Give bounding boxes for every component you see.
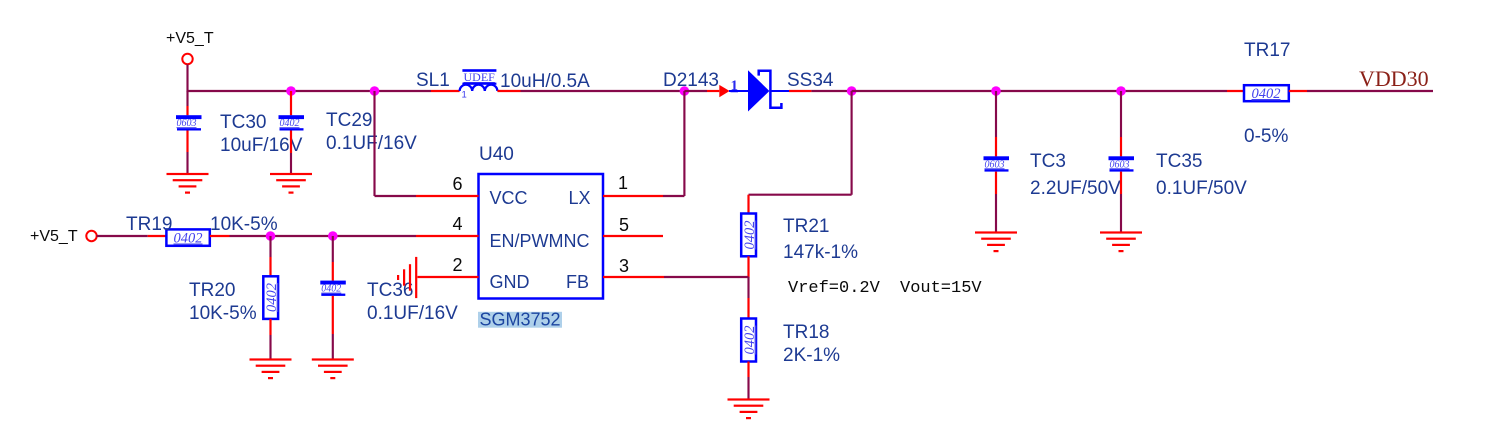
svg-text:147k-1%: 147k-1% xyxy=(783,242,858,263)
node junction dot (TR20 tap) xyxy=(266,231,276,241)
node junction dot (diode cathode) xyxy=(847,86,857,96)
pin 3 wire (FB) xyxy=(603,276,664,278)
svg-text:0402: 0402 xyxy=(174,231,203,247)
svg-text:+V5_T: +V5_T xyxy=(166,30,214,47)
ground (pin 2, sideways) xyxy=(397,257,417,298)
pin 1 wire (LX) xyxy=(603,195,663,197)
inductor SL1 xyxy=(431,69,521,100)
svg-text:TC35: TC35 xyxy=(1156,151,1202,172)
svg-text:GND: GND xyxy=(490,272,530,292)
wire output rail xyxy=(852,90,1227,92)
svg-text:U40: U40 xyxy=(479,144,514,165)
svg-text:3: 3 xyxy=(619,256,629,276)
pin 5 wire (NC) xyxy=(603,235,663,237)
svg-text:SL1: SL1 xyxy=(416,70,450,91)
svg-text:TC3: TC3 xyxy=(1030,151,1066,172)
svg-text:1: 1 xyxy=(618,173,628,193)
wire FB node xyxy=(664,276,749,278)
capacitor TC29 xyxy=(279,91,305,174)
power port +V5_T (left) xyxy=(30,228,97,245)
ground (TC36) xyxy=(312,358,354,379)
ground (TC35) xyxy=(1100,231,1142,252)
wire rail after inductor to diode junction xyxy=(521,90,685,92)
ground (TC29) xyxy=(270,173,312,194)
svg-text:0402: 0402 xyxy=(264,283,280,312)
svg-text:Vref=0.2V: Vref=0.2V xyxy=(788,279,881,298)
capacitor TC36 xyxy=(320,236,346,359)
pin 1 arrow marker xyxy=(719,85,729,97)
node junction dot (TC35 tap) xyxy=(1116,86,1126,96)
svg-text:VCC: VCC xyxy=(490,188,528,208)
resistor TR20 xyxy=(263,236,280,359)
svg-text:0.1UF/50V: 0.1UF/50V xyxy=(1156,178,1247,199)
wire from +V5_T circle down to main rail xyxy=(186,65,188,93)
svg-text:VDD30: VDD30 xyxy=(1359,66,1429,91)
svg-text:TC29: TC29 xyxy=(326,110,372,131)
wire arrow to diode xyxy=(729,90,748,92)
node junction dot (TC29 tap) xyxy=(286,86,296,96)
svg-text:TC36: TC36 xyxy=(367,280,413,301)
IC U40 xyxy=(479,174,604,299)
svg-text:0603: 0603 xyxy=(1110,159,1130,170)
svg-text:LX: LX xyxy=(569,188,591,208)
pin 6 wire (VCC) xyxy=(416,195,479,197)
svg-text:2: 2 xyxy=(453,255,463,275)
capacitor TC3 xyxy=(984,91,1010,233)
wire circle to TR19 xyxy=(97,235,148,237)
svg-text:10uH/0.5A: 10uH/0.5A xyxy=(500,71,590,92)
resistor TR17 xyxy=(1227,85,1307,102)
node junction dot (diode anode / LX) xyxy=(680,86,690,96)
svg-text:2K-1%: 2K-1% xyxy=(783,345,840,366)
ground (TC3) xyxy=(975,231,1017,252)
svg-text:FB: FB xyxy=(566,272,589,292)
svg-text:0603: 0603 xyxy=(985,159,1005,170)
svg-text:0.1UF/16V: 0.1UF/16V xyxy=(326,133,417,154)
diode D2143 SS34 (schottky) xyxy=(748,70,781,111)
wire anode to arrow xyxy=(684,90,707,92)
capacitor TC30 xyxy=(176,91,202,174)
node junction dot (TC36 tap) xyxy=(328,231,338,241)
wire EN rail xyxy=(230,235,417,237)
svg-text:EN/PWM: EN/PWM xyxy=(490,231,564,251)
capacitor TC35 xyxy=(1109,91,1135,233)
part number SGM3752 xyxy=(478,309,562,329)
svg-text:SS34: SS34 xyxy=(787,70,834,91)
node junction dot (TC3 tap) xyxy=(991,86,1001,96)
svg-text:TR18: TR18 xyxy=(783,322,829,343)
ground (TR20) xyxy=(250,358,292,379)
wire LX branch down to pin 1 xyxy=(663,91,684,196)
svg-text:TC30: TC30 xyxy=(220,112,266,133)
svg-text:D2143: D2143 xyxy=(663,70,719,91)
resistor TR21 xyxy=(741,195,758,278)
resistor TR19 xyxy=(148,229,230,246)
svg-text:4: 4 xyxy=(453,214,463,234)
svg-text:TR19: TR19 xyxy=(126,214,172,235)
wire to VDD30 xyxy=(1307,90,1433,92)
svg-text:1: 1 xyxy=(462,90,467,101)
svg-text:2.2UF/50V: 2.2UF/50V xyxy=(1030,178,1121,199)
svg-text:0603: 0603 xyxy=(177,118,197,129)
svg-text:0-5%: 0-5% xyxy=(1244,126,1288,147)
svg-text:0.1UF/16V: 0.1UF/16V xyxy=(367,303,458,324)
svg-text:0402: 0402 xyxy=(742,326,758,355)
svg-text:NC: NC xyxy=(564,231,590,251)
wire feedback branch from output xyxy=(749,91,852,195)
resistor TR18 xyxy=(741,277,758,399)
svg-text:10K-5%: 10K-5% xyxy=(210,214,278,235)
power port +V5_T (top) xyxy=(166,30,214,64)
svg-text:0402: 0402 xyxy=(742,221,758,250)
svg-text:TR17: TR17 xyxy=(1244,40,1290,61)
svg-text:+V5_T: +V5_T xyxy=(30,228,78,245)
pin 4 wire (EN/PWM) xyxy=(416,235,479,237)
svg-text:10K-5%: 10K-5% xyxy=(189,303,257,324)
wire VCC branch down and right to pin 6 xyxy=(375,91,417,196)
wire diode cathode xyxy=(770,90,789,92)
svg-text:Vout=15V: Vout=15V xyxy=(900,279,982,298)
svg-text:0402: 0402 xyxy=(280,118,300,129)
pin 2 wire (GND) xyxy=(418,276,479,278)
svg-text:6: 6 xyxy=(453,174,463,194)
ground (TR18) xyxy=(728,398,770,419)
ground (TC30) xyxy=(167,173,209,194)
svg-text:5: 5 xyxy=(619,215,629,235)
svg-text:TR20: TR20 xyxy=(189,280,235,301)
svg-text:0402: 0402 xyxy=(1252,86,1281,102)
svg-text:0402: 0402 xyxy=(321,284,341,295)
node junction dot (VCC branch) xyxy=(370,86,380,96)
svg-text:UDEF: UDEF xyxy=(464,70,496,84)
svg-text:TR21: TR21 xyxy=(783,216,829,237)
svg-text:SGM3752: SGM3752 xyxy=(480,309,561,329)
wire main top rail xyxy=(188,90,432,92)
